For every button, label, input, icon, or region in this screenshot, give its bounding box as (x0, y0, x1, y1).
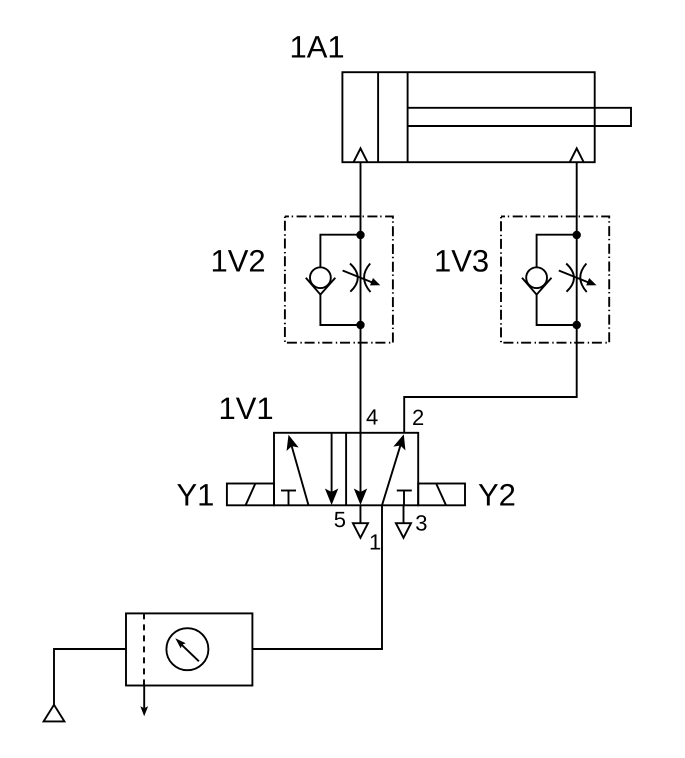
node 1V3 bottom junction (573, 321, 581, 329)
check valve 1V3 seat (522, 278, 552, 295)
cylinder 1A1 left port arrow (354, 148, 368, 162)
valve 1V1 position divider (345, 433, 347, 506)
valve 1V1 right position blocked port (397, 490, 412, 492)
throttle 1V3 right arc (580, 264, 586, 293)
check valve 1V2 circle (310, 267, 331, 288)
wire 1V2 check valve branch top (320, 235, 360, 268)
svg-text:1V2: 1V2 (211, 244, 266, 279)
throttle 1V2 adjustment arrow (343, 271, 373, 283)
flow control valve 1V3 enclosure (501, 216, 609, 342)
cylinder 1A1 right port arrow (570, 148, 584, 162)
cylinder 1A1 body (342, 72, 594, 162)
svg-text:1V3: 1V3 (434, 244, 489, 279)
exhaust port 5 stub (359, 505, 361, 523)
svg-text:3: 3 (415, 511, 427, 536)
exhaust port 3 stub (403, 505, 405, 523)
exhaust port 3 silencer triangle (396, 523, 411, 538)
valve 1V1 left position blocked port (281, 490, 296, 492)
pressure gauge circle (166, 628, 208, 670)
throttle 1V2 right arc (364, 264, 370, 293)
service unit drain arrow (143, 686, 145, 709)
valve 1V1 left position diagonal flow arrow (291, 444, 308, 505)
check valve 1V3 circle (526, 267, 547, 288)
node 1V3 top junction (573, 231, 581, 239)
wire cylinder right port to valve port 2 (404, 162, 577, 433)
service unit filter separator dashed line (143, 613, 145, 685)
wire 1V3 check valve branch top (537, 235, 577, 268)
flow control valve 1V2 enclosure (285, 216, 393, 342)
svg-text:1: 1 (369, 530, 381, 555)
svg-text:4: 4 (366, 405, 378, 430)
valve 1V1 left position down flow arrow (331, 433, 333, 494)
pressure gauge needle (181, 644, 199, 662)
svg-text:Y2: Y2 (478, 478, 516, 513)
svg-text:Y1: Y1 (177, 478, 215, 513)
wire 1V2 check valve branch bottom (320, 295, 360, 325)
wire valve port 1 to service unit (252, 505, 382, 649)
cylinder 1A1 piston (377, 72, 379, 162)
valve 1V1 right position diagonal flow arrow 1 to 2 (382, 444, 401, 506)
node 1V2 bottom junction (356, 321, 364, 329)
throttle 1V2 left arc (350, 264, 358, 292)
wire cylinder left port to valve port 4 (360, 162, 362, 433)
wire 1V3 check valve branch bottom (537, 295, 577, 325)
solenoid Y1 (227, 484, 274, 506)
exhaust port 5 silencer triangle (353, 523, 368, 538)
svg-text:5: 5 (334, 507, 346, 532)
service unit body (126, 613, 252, 685)
valve 1V1 right position flow arrow 4 to 5 (360, 433, 362, 494)
solenoid Y2 (418, 484, 465, 506)
wire service unit to air supply (54, 649, 126, 705)
node 1V2 top junction (356, 231, 364, 239)
valve 1V1 body (274, 433, 418, 506)
throttle 1V3 left arc (566, 264, 574, 292)
throttle 1V3 adjustment arrow (559, 271, 589, 283)
cylinder 1A1 piston rod (408, 108, 631, 126)
svg-text:1V1: 1V1 (219, 391, 274, 426)
check valve 1V2 seat (306, 278, 336, 295)
compressed air supply triangle (44, 705, 65, 722)
svg-text:2: 2 (412, 405, 424, 430)
svg-text:1A1: 1A1 (290, 30, 345, 65)
